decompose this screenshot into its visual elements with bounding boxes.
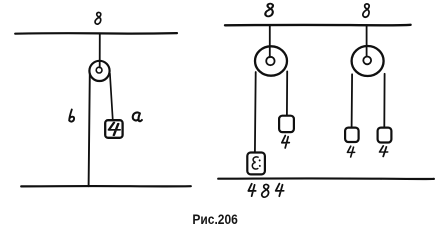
hanger wire 1	[269, 25, 271, 57]
pulley 1	[255, 46, 287, 75]
string left of pulley 2	[351, 74, 354, 127]
hanger wire 2	[366, 25, 368, 56]
right ceiling line	[225, 24, 411, 27]
left hanging box (pulley2)	[345, 128, 359, 142]
weight box 4 (left diagram)	[105, 120, 122, 138]
digit 4 under box	[282, 136, 289, 148]
left ceiling line	[15, 32, 177, 35]
svg-text:Рис.206: Рис.206	[192, 211, 238, 227]
weight box E	[247, 153, 265, 175]
hanger wire left	[99, 34, 101, 68]
digit 4 under right box	[380, 146, 388, 157]
pulley 2 axle	[363, 57, 371, 65]
label b	[69, 110, 74, 122]
label 8 (first hanger)	[265, 4, 273, 17]
string to weight a	[110, 73, 113, 120]
left floor line	[21, 185, 191, 188]
floor label 8	[262, 184, 269, 197]
digit 4 in box	[109, 123, 120, 136]
digit 4 under left box	[347, 146, 354, 157]
right floor line	[218, 177, 434, 180]
string to weight E (floor box)	[254, 72, 257, 152]
hanging box (pulley1 right)	[279, 116, 294, 132]
string to hanging box (pulley1 right)	[286, 71, 288, 115]
pulley 2	[352, 46, 384, 76]
pulley left	[89, 61, 109, 81]
label a	[133, 112, 142, 121]
label 8 (left ceiling force)	[95, 12, 101, 24]
right hanging box (pulley2)	[378, 128, 392, 143]
pulley 1 axle	[266, 57, 274, 65]
glyph E (epsilon) in box	[252, 157, 258, 169]
floor label 4	[248, 184, 255, 196]
label 8 (second hanger)	[363, 4, 369, 17]
floor label 4	[276, 184, 284, 197]
pulley left axle	[96, 67, 102, 73]
string b (left side to floor)	[89, 74, 90, 186]
string right of pulley 2	[383, 74, 385, 128]
